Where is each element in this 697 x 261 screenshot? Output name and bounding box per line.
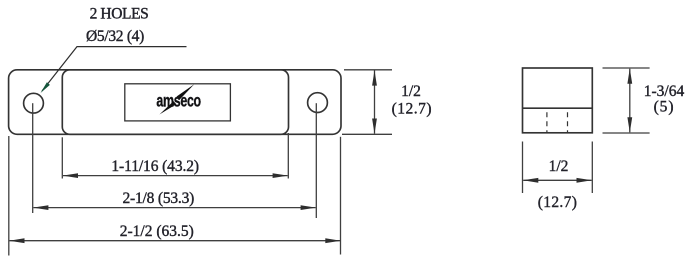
svg-text:1/2: 1/2 [549, 158, 569, 175]
lightning bolt through logo lower stroke [159, 101, 176, 114]
leader line to left hole [42, 47, 187, 91]
svg-text:2-1/2 (63.5): 2-1/2 (63.5) [120, 223, 194, 240]
lightning bolt through logo upper stroke [177, 84, 195, 100]
extension line from body left edge [8, 136, 10, 256]
right mounting hole [308, 93, 328, 113]
extension line side-bottom right [591, 142, 593, 194]
extension line from inner section left edge [61, 137, 63, 178]
front view raised center section [62, 70, 288, 135]
svg-text:1-3/64: 1-3/64 [644, 83, 685, 100]
leader arrowhead [41, 82, 50, 93]
dimension line 2-1/8 [33, 207, 315, 209]
extension line from body right edge [340, 137, 342, 255]
extension line front-right bottom [342, 133, 392, 135]
svg-text:2 HOLES: 2 HOLES [90, 6, 149, 23]
amseco logo text [156, 92, 201, 112]
arrowheads dim 2-1/8 [33, 205, 48, 210]
dimension line 1/2 horizontal (side) [523, 179, 591, 181]
extension line from right hole center [315, 103, 317, 218]
dimension line 1/2 vertical (front) [374, 71, 376, 134]
arrowheads dim 2-1/2 [9, 238, 24, 243]
side view parting line [523, 107, 593, 109]
extension line from inner section right edge [287, 133, 289, 179]
side view hidden line right [567, 112, 569, 133]
extension line side-right top [603, 67, 650, 69]
left mounting hole [24, 93, 44, 113]
svg-text:1/2: 1/2 [401, 83, 421, 100]
arrowheads dim 1/2 side [523, 178, 538, 183]
svg-text:1-11/16 (43.2): 1-11/16 (43.2) [111, 158, 199, 175]
side view outline [523, 68, 593, 133]
svg-text:Ø5/32 (4): Ø5/32 (4) [86, 28, 144, 45]
extension line side-right bottom [603, 132, 650, 134]
svg-text:(5): (5) [654, 99, 675, 116]
extension line side-bottom left [522, 142, 524, 194]
svg-text:(12.7): (12.7) [392, 100, 432, 117]
svg-text:(12.7): (12.7) [538, 194, 578, 211]
arrowheads dim 1-3/64 [627, 68, 632, 83]
side view hidden line left [546, 112, 548, 133]
svg-text:2-1/8 (53.3): 2-1/8 (53.3) [122, 190, 194, 207]
extension line front-right top [344, 69, 392, 71]
arrowheads dim 1/2 front [372, 70, 377, 85]
dimension line 1-3/64 vertical [629, 69, 631, 133]
dimension line 1-11/16 [63, 175, 288, 177]
svg-text:amseco: amseco [156, 92, 201, 112]
arrowheads dim 1-11/16 [63, 173, 78, 178]
dimension line 2-1/2 [10, 240, 341, 242]
front view body outline [9, 70, 341, 135]
extension line from left hole center [32, 103, 34, 213]
logo plate rectangle [125, 84, 231, 121]
